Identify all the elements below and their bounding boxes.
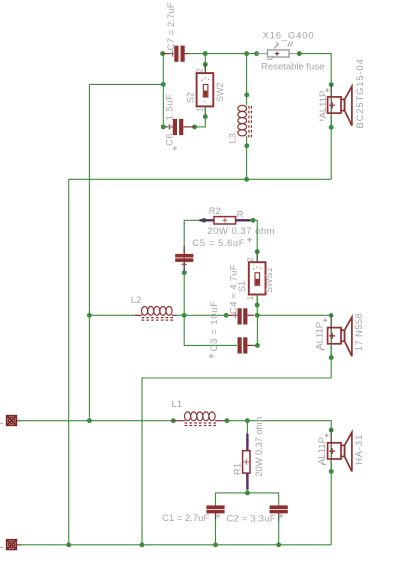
capacitor C7 <box>163 46 190 62</box>
svg-text:1: 1 <box>196 107 205 112</box>
junction: return bus joins ground bus <box>66 542 71 547</box>
svg-text:C1 = 2.7uF: C1 = 2.7uF <box>162 513 209 524</box>
junction: R2 left pin <box>202 218 207 223</box>
wire: tweeter bottom down to return <box>330 113 332 179</box>
junction: C3 right pin <box>255 343 260 348</box>
junction: mid speaker - pin <box>329 355 334 360</box>
inductor L3 <box>238 105 252 138</box>
junction: C5 bottom pin <box>182 270 187 275</box>
label - pin mark (midrange) <box>321 349 325 351</box>
switch S2 <box>197 73 214 106</box>
junction: S2 pin1 <box>203 114 208 119</box>
junction: R2 right pin <box>251 218 256 223</box>
svg-text:R1: R1 <box>232 463 243 475</box>
label stub (input -) <box>0 546 4 548</box>
svg-text:SWS1: SWS1 <box>264 267 274 293</box>
capacitor C6 <box>163 119 195 135</box>
svg-text:L1: L1 <box>172 399 183 410</box>
wire: L3 branch vertical top <box>246 54 248 106</box>
capacitor C4 <box>226 308 254 324</box>
svg-text:Resetable fuse: Resetable fuse <box>261 62 324 73</box>
fuse X16_G400 resetable fuse <box>257 42 300 60</box>
svg-text:BC25TG15-04: BC25TG15-04 <box>355 58 366 128</box>
wire: C2 bottom to ground bus <box>278 519 280 545</box>
inductor L1 <box>173 412 227 426</box>
wire: fuse to tweeter top <box>299 54 331 97</box>
svg-text:HA-31: HA-31 <box>354 434 365 465</box>
wire: woofer bottom to ground bus <box>330 459 332 545</box>
junction: L3 top pin <box>244 92 249 97</box>
junction: bus to L2 wire <box>87 313 92 318</box>
wire: S1 pin stubs dark <box>256 252 258 305</box>
svg-text:AL11P: AL11P <box>318 91 329 119</box>
wire: branch from node at (163,84) left to input bus <box>89 83 163 85</box>
junction: S2 pin2 <box>203 62 208 67</box>
junction: bus joins input+ <box>87 418 92 423</box>
junction at C7 left pin <box>160 51 165 56</box>
junction: tweeter - pin <box>329 125 334 130</box>
junction: C2 bottom pin <box>276 542 281 547</box>
wire: S2 pin stubs dark <box>204 64 206 116</box>
label stub (input +) <box>0 422 4 424</box>
capacitor C3 <box>238 337 255 353</box>
svg-text:AL11P: AL11P <box>315 322 326 350</box>
junction: R1 branch <box>245 418 250 423</box>
svg-text:C2 = 3.3uF: C2 = 3.3uF <box>227 513 276 524</box>
junction: fuse right pin <box>297 51 302 56</box>
wire: S1 pin1 down to mid node <box>256 295 258 316</box>
junction: S1 pin2 <box>255 249 260 254</box>
speaker LS3 AL11P BC25TG15-04 (tweeter) <box>328 85 352 128</box>
wire: ground bus horizontal <box>19 544 331 546</box>
label C6 origin cross <box>173 146 177 150</box>
junction: L3 branch on top wire <box>244 51 249 56</box>
wire: C1/C2 top rail <box>216 493 279 506</box>
capacitor C1 <box>206 505 224 521</box>
capacitor C5 <box>175 246 193 271</box>
speaker LS2 AL11P 17N558 (midrange) <box>328 315 352 357</box>
wire: C1 bottom to ground bus <box>215 519 217 545</box>
wire: input+ horizontal to L1 <box>19 420 174 422</box>
label + pin mark (woofer) <box>325 433 329 437</box>
switch S1 <box>249 262 266 294</box>
junction: L3 to return bus <box>244 177 249 182</box>
resistor R1 <box>243 434 250 490</box>
svg-text:C6 = 1.5uF: C6 = 1.5uF <box>165 94 176 146</box>
junction: C1 bottom pin <box>213 542 218 547</box>
wire: R2 left branch up from node <box>184 220 199 315</box>
svg-text:17 N558: 17 N558 <box>354 313 365 351</box>
svg-text:R2: R2 <box>209 206 221 217</box>
junction: tweeter + pin <box>329 82 334 87</box>
svg-text:C3 = 10uF: C3 = 10uF <box>209 300 220 351</box>
connector X2 input - (pinhead) <box>7 540 21 550</box>
junction: L1 right pin <box>224 418 229 423</box>
junction: C4 left pin <box>224 313 229 318</box>
wire: R2 right to S1 <box>250 220 257 262</box>
svg-text:20W 0.37 ohm: 20W 0.37 ohm <box>207 226 275 237</box>
label + pin mark (tweeter) <box>325 88 329 92</box>
junction: C5/C3 node on mid wire <box>182 313 187 318</box>
svg-text:C5 = 5.6uF: C5 = 5.6uF <box>192 238 245 249</box>
svg-text:S2: S2 <box>186 92 196 103</box>
svg-text:2: 2 <box>196 68 205 73</box>
svg-text:L2: L2 <box>131 295 142 306</box>
wire: L2 to junction node <box>175 314 226 316</box>
junction: fuse left pin <box>254 51 259 56</box>
junction: woofer - pin <box>329 469 334 474</box>
svg-text:1: 1 <box>246 295 255 300</box>
wire: top net C7 to fuse <box>188 53 257 55</box>
wire: S2 pin1 to C6 <box>195 106 206 127</box>
junction: woofer + pin <box>329 428 334 433</box>
svg-text:2: 2 <box>246 257 255 262</box>
wire: mid node to mid speaker <box>257 315 331 327</box>
junction on vertical wire at y=84 <box>161 82 166 87</box>
wire: mid filter input from bus through L2 node <box>89 314 137 316</box>
connector X1 input + (pinhead) <box>7 416 21 426</box>
svg-text:C4 = 4.7uF: C4 = 4.7uF <box>229 264 240 314</box>
capacitor C2 <box>270 505 288 521</box>
junction: S2 branch on top wire <box>203 51 208 56</box>
svg-text:X16_G400: X16_G400 <box>263 31 315 42</box>
junction: S1 pin1 <box>255 303 260 308</box>
inductor L2 <box>135 307 176 321</box>
junction: R1 bottom <box>245 490 250 495</box>
svg-text:AL11P: AL11P <box>317 437 328 465</box>
svg-text:C7 = 2.7uF: C7 = 2.7uF <box>166 2 177 50</box>
wire: mid speaker return <box>142 344 331 545</box>
junction: mid speaker + pin <box>329 313 333 317</box>
junction: mid return joins ground bus <box>140 542 145 547</box>
junction: L1 left pin <box>171 418 176 423</box>
wire: R1 branch vertical <box>246 421 248 435</box>
junction: L3 bottom pin <box>244 143 249 148</box>
junction: mid 4-way node <box>255 313 260 318</box>
svg-text:R: R <box>237 210 244 221</box>
resistor R2 <box>200 217 251 224</box>
wire: return bus vertical x=68.7 <box>68 179 70 545</box>
svg-text:20W 0.37 ohm: 20W 0.37 ohm <box>254 416 264 476</box>
junction: C6 right pin <box>192 124 197 129</box>
wire: top net from C7 left node down to C6 left node <box>162 54 164 128</box>
svg-text:L3: L3 <box>228 133 239 144</box>
label + pin mark (midrange) <box>323 318 327 322</box>
wire: tweeter return bus <box>69 178 332 180</box>
wire: L3 bottom to return bus <box>246 136 248 179</box>
wire: C3 right side up to node <box>254 315 257 345</box>
label C3 origin cross <box>209 354 213 358</box>
label - pin mark (tweeter) <box>320 119 324 121</box>
wire: R1 bottom to C1/C2 <box>246 489 248 493</box>
label - pin mark (woofer) <box>322 463 326 465</box>
wire: C3 loop left side <box>184 315 237 345</box>
junction: C6 left pin <box>161 124 166 129</box>
wire: input+ bus vertical x=89.4 <box>88 84 90 420</box>
speaker LS1 AL11P HA-31 (woofer) <box>328 430 352 472</box>
svg-text:SW2: SW2 <box>215 82 225 102</box>
label C5 origin cross <box>247 237 252 242</box>
wire: S2 branch vertical <box>204 54 206 74</box>
wire: L1 to woofer <box>227 421 331 443</box>
